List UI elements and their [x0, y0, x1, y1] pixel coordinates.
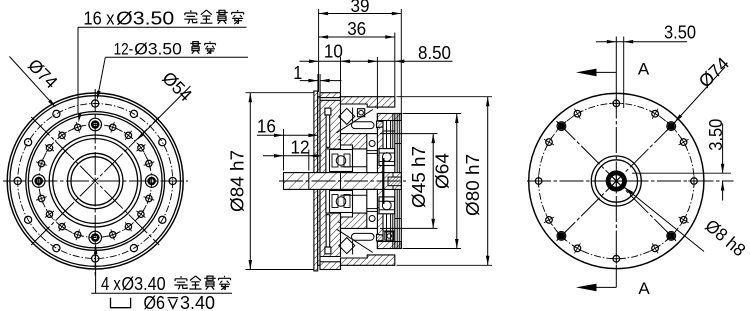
- leader: 16 x Ø3.50 label: [77, 27, 79, 113]
- circle Ø64: [28, 114, 162, 248]
- wave generator bearing bottom: [379, 197, 395, 214]
- 4 x Ø3.40 counterbored holes Ø6 at N S E W: [89, 118, 102, 131]
- vertical centerline: [94, 89, 96, 276]
- svg-text:36: 36: [347, 19, 366, 39]
- diagonal centerline NW-SE: [557, 122, 676, 241]
- dim 39: [319, 13, 402, 15]
- wave generator bearing top: [379, 149, 395, 166]
- diagonal centerline NE-SW: [557, 122, 676, 241]
- svg-text:3.50: 3.50: [664, 23, 696, 43]
- screw shank slot bottom: [326, 215, 330, 247]
- diagonal centerline NW-SE: [31, 117, 159, 245]
- output flange rim top Ø84: [320, 93, 341, 98]
- leader: 4 x Ø3.40 counterbore label: [94, 245, 98, 255]
- flange outer circle Ø84: [7, 93, 183, 269]
- svg-text:12-: 12-: [114, 40, 134, 59]
- step edge housing to Ø80: [340, 93, 342, 97]
- circlip wedge bottom: [377, 235, 384, 242]
- wave generator plug diagonal bottom: [337, 229, 373, 252]
- housing left ring section: [320, 100, 341, 256]
- cross roller bottom: [339, 238, 355, 254]
- leader: Ø74 label (left view): [10, 57, 53, 104]
- svg-text:Ø45 h7: Ø45 h7: [409, 146, 429, 208]
- bolt circle Ø74 (dash-dot): [539, 103, 694, 258]
- dim Ø84 h7: [249, 93, 251, 270]
- dim Ø80 h7: [487, 97, 489, 266]
- leader Ø8 h8: [624, 187, 633, 195]
- dim Ø84 h7 extension lines: [246, 92, 314, 94]
- svg-text:3.50: 3.50: [706, 119, 726, 151]
- wave generator plug diagonal top: [337, 110, 373, 133]
- housing bore cutouts (white): [326, 149, 341, 213]
- svg-text:16: 16: [257, 116, 276, 136]
- dim 3.50 right side: [722, 123, 724, 173]
- flexspline hub Ø45 bottom: [341, 213, 378, 228]
- shaft step lines: [308, 173, 310, 190]
- collar lines near shaft: [341, 166, 367, 168]
- Ø80 cross-roller ring top band: [341, 97, 395, 107]
- dim 12: [308, 150, 310, 171]
- Ø64 end cap bottom band: [377, 242, 401, 249]
- svg-text:39: 39: [351, 0, 370, 16]
- section arrow A top: [581, 71, 616, 73]
- wave generator hub column bottom: [367, 189, 378, 228]
- shaft centerline: [279, 180, 406, 182]
- svg-text:A: A: [638, 279, 650, 298]
- outer circle Ø84: [529, 93, 704, 268]
- 12 x Ø3.50 holes with ticks: [613, 100, 620, 107]
- leader Ø74 right view: [675, 67, 726, 123]
- svg-text:Ø3.40: Ø3.40: [122, 274, 166, 294]
- circle Ø66: [26, 112, 165, 251]
- Ø64 cylinder wall: [377, 114, 383, 249]
- bearing pocket top (white area) outline: [340, 104, 342, 149]
- shaft right end plug (dark): [388, 177, 401, 186]
- motor flange ribs top: [386, 121, 388, 149]
- dim 36: [319, 36, 395, 38]
- output flange rim bottom Ø84: [320, 262, 341, 270]
- thick wall line: [382, 158, 384, 204]
- flexspline hub Ø45 top: [341, 134, 378, 149]
- circle Ø26: [68, 153, 123, 208]
- Ø80 ring bottom band: [341, 255, 395, 265]
- hub circle Ø24: [591, 156, 641, 206]
- svg-text:Ø3.50: Ø3.50: [134, 40, 182, 59]
- dim 3.50 top extension: [623, 37, 625, 109]
- circlip wedge top: [377, 121, 384, 128]
- 4 x Ø3.40 holes at 45deg (dark): [667, 122, 676, 131]
- depth symbol: [168, 297, 179, 299]
- wave generator hub column top: [367, 134, 378, 173]
- circle Ø44: [49, 135, 141, 227]
- dim 3.50 top: [596, 41, 687, 43]
- svg-text:8.50: 8.50: [418, 43, 451, 63]
- svg-text:A: A: [638, 60, 650, 79]
- svg-text:Ø3.50: Ø3.50: [116, 9, 174, 29]
- dim 1: [300, 80, 318, 82]
- svg-text:10: 10: [324, 42, 343, 62]
- Ø64 end cap top band: [377, 114, 401, 121]
- offset chord line 3.50: [632, 172, 731, 174]
- oldham coupling capsule bottom: [352, 233, 375, 240]
- screw head pocket top: [325, 108, 331, 115]
- leader: 12-Ø3.50 label: [98, 57, 106, 96]
- bolt circle Ø74 (dash-dot): [18, 104, 173, 259]
- output flange web (left thin plate): [314, 91, 318, 271]
- bolt circle Ø54 (dash-dot): [39, 125, 152, 238]
- circle Ø40: [53, 139, 138, 224]
- input shaft bore Ø8 h8 (thick dark ring): [608, 173, 624, 189]
- housing bore edge across shaft: [340, 173, 342, 190]
- 12 x Ø3.50 holes on Ø74 bolt circle: [92, 100, 99, 107]
- oldham coupling capsule top: [352, 122, 375, 129]
- dim Ø45 h7: [432, 134, 434, 229]
- svg-text:Ø6: Ø6: [144, 293, 166, 311]
- support ball bearing bottom: [330, 191, 353, 213]
- horizontal centerline: [527, 180, 734, 182]
- svg-text:4 x: 4 x: [101, 274, 121, 294]
- svg-text:3.40: 3.40: [180, 293, 215, 311]
- extension lines top dims: [318, 9, 320, 92]
- svg-text:16 x: 16 x: [84, 9, 115, 29]
- dim Ø45 h7 ext lines: [380, 133, 438, 135]
- cross roller top: [339, 108, 355, 124]
- leader: Ø54 label: [140, 86, 191, 137]
- dim Ø80 h7 ext lines: [397, 96, 493, 98]
- shaft bore spokes: [611, 180, 623, 182]
- screw section top with head circle: [358, 109, 365, 117]
- dim 10 and 8.50 shared line: [300, 60, 453, 62]
- motor adapter right cap: [395, 114, 402, 249]
- hub circle Ø20: [595, 160, 637, 202]
- screw head pocket bottom: [325, 247, 331, 254]
- motor flange ribs bottom: [386, 214, 388, 242]
- horizontal centerline: [3, 180, 188, 182]
- arm edge verticals: [352, 108, 354, 122]
- diagonal centerline NE-SW: [31, 117, 159, 245]
- circle Ø81: [10, 96, 181, 267]
- 1mm spacer ring: [318, 97, 320, 266]
- counterbore symbol: [111, 298, 131, 308]
- svg-text:1: 1: [293, 63, 302, 83]
- dim Ø64 ext lines: [403, 113, 462, 115]
- dim 16: [283, 129, 285, 171]
- svg-text:Ø84 h7: Ø84 h7: [228, 150, 248, 212]
- circle Ø23: [71, 157, 119, 205]
- svg-text:Ø80 h7: Ø80 h7: [463, 154, 483, 216]
- screw section bottom with head circle: [385, 232, 394, 240]
- vertical centerline / cutting plane: [615, 37, 617, 93]
- screw shank slot top: [326, 115, 330, 147]
- section arrow A bottom: [581, 286, 616, 288]
- 16 x Ø3.50 holes on Ø54 bolt circle with tick marks: [110, 124, 116, 130]
- svg-text:12: 12: [291, 137, 310, 157]
- input shaft (hatched): [284, 173, 402, 190]
- dim Ø64: [456, 114, 458, 249]
- svg-text:Ø64: Ø64: [433, 153, 453, 189]
- support ball bearing top: [330, 150, 353, 172]
